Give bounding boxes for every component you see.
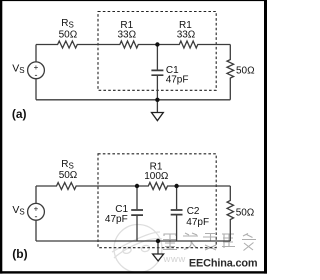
svg-text:(b): (b) — [12, 247, 27, 261]
svg-text:C2: C2 — [187, 206, 200, 217]
svg-text:-: - — [35, 70, 38, 80]
svg-text:(a): (a) — [12, 107, 27, 121]
svg-text:RS: RS — [61, 18, 74, 29]
svg-text:50Ω: 50Ω — [59, 170, 78, 181]
svg-text:-: - — [35, 212, 38, 222]
svg-text:47pF: 47pF — [105, 214, 128, 225]
svg-text:47pF: 47pF — [166, 75, 189, 86]
svg-text:50Ω: 50Ω — [59, 29, 78, 40]
svg-text:47pF: 47pF — [186, 217, 209, 228]
svg-text:33Ω: 33Ω — [177, 29, 196, 40]
svg-text:33Ω: 33Ω — [117, 29, 136, 40]
svg-text:50Ω: 50Ω — [236, 207, 255, 218]
svg-text:100Ω: 100Ω — [144, 171, 169, 182]
svg-text:EEChina.com: EEChina.com — [189, 257, 258, 269]
svg-text:50Ω: 50Ω — [236, 65, 255, 76]
svg-text:www: www — [163, 254, 186, 265]
svg-text:RS: RS — [61, 159, 74, 170]
